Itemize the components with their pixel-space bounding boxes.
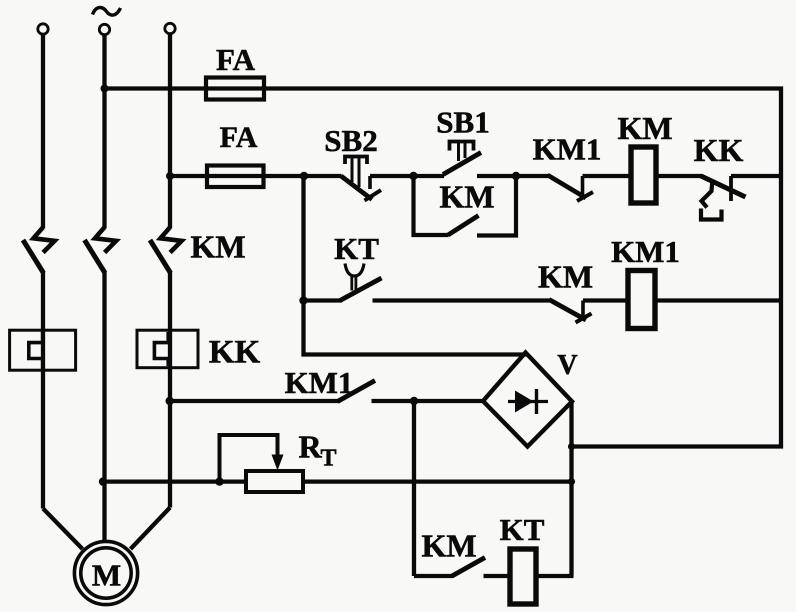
wire bottom row: branch to KM contact (414, 574, 453, 578)
svg-text:R: R (299, 429, 323, 465)
svg-text:SB1: SB1 (436, 105, 489, 140)
wire RT row: resistor to bridge-right bus (303, 479, 572, 483)
AC tilde symbol (93, 8, 121, 16)
thermal relay contact KK (NC) (701, 176, 746, 220)
wire L1 upper (41, 34, 45, 228)
wire row2: KM1 contact to KM coil (583, 174, 632, 178)
svg-text:KM1: KM1 (285, 365, 354, 400)
wire row2: SB1 to KM1 contact (477, 174, 548, 178)
coil KT (time relay) (510, 549, 536, 604)
svg-text:FA: FA (220, 121, 258, 154)
svg-text:KM: KM (421, 528, 476, 564)
svg-text:M: M (92, 558, 121, 593)
wire row2: L3 to SB2 (170, 174, 342, 178)
pushbutton SB2 (NC stop button) (341, 157, 381, 201)
wire row3: KM1 coil to right bus (655, 298, 781, 302)
svg-text:KK: KK (209, 335, 261, 371)
terminal L2 (99, 24, 109, 34)
time relay contact KT (NO, delayed) (340, 264, 382, 301)
wire L1 to motor (43, 509, 83, 550)
wire row3: node to KT contact (302, 298, 343, 302)
motor M (74, 541, 137, 604)
junction row3 tap (299, 296, 307, 304)
wire L3 to motor (131, 508, 171, 550)
svg-text:KT: KT (334, 231, 379, 266)
wire L3 upper (168, 34, 172, 229)
interlock contact KM1 (NC) on row2 (548, 175, 594, 201)
svg-text:KM: KM (538, 259, 593, 295)
wire L3 lower (168, 271, 172, 508)
rectifier bridge V (483, 353, 572, 447)
wire row1 + right-edge bus + bottom-right return (105, 89, 782, 447)
contactor KM main contact 1 (23, 228, 55, 274)
wire RT row: L2 to resistor (103, 479, 247, 483)
junction RT row / loop tap (215, 477, 223, 485)
junction bridge-right / RT row (568, 478, 575, 485)
fuse FA1 (206, 78, 264, 100)
thermal heater element KK phase 1 (10, 330, 76, 370)
junction parallel-branch left (409, 172, 417, 180)
wire row3: KM contact to KM1 coil (583, 298, 628, 302)
contactor KM main contact 2 (85, 228, 117, 274)
svg-text:KT: KT (500, 512, 545, 547)
wire bottom row: KM contact to KT coil (484, 574, 511, 578)
wire branch from row4 down to KM bottom contact (412, 401, 416, 576)
wire L1 lower (41, 271, 45, 509)
terminal L3 (165, 23, 175, 33)
wire: branch down from node 305 and over to bridge top (304, 176, 528, 355)
svg-text:KM: KM (617, 110, 672, 146)
fuse FA2 (207, 166, 264, 188)
wire row4: contact to bridge left vertex (372, 399, 485, 403)
junction row2 / L3 (166, 172, 174, 180)
svg-text:KM: KM (190, 229, 245, 265)
wire row3: KT to KM contact (373, 298, 551, 302)
wire row4: L3 to KM1 contact (170, 399, 340, 403)
contact KM (NO) bottom (452, 558, 485, 577)
wire row2: SB2 to SB1 (370, 174, 444, 178)
pushbutton SB1 (NO start button) (443, 142, 481, 175)
coil KM (contactor) (631, 147, 656, 203)
svg-text:KK: KK (694, 132, 744, 168)
rheostat tap loop with arrow (220, 435, 284, 482)
svg-text:KM1: KM1 (611, 234, 680, 269)
junction RT row / L2 (99, 477, 107, 485)
wire: bridge right vertex down to bottom branch (569, 402, 573, 577)
auxiliary contact KM (self-holding, parallel to SB1) (414, 174, 517, 236)
wire L2 upper (102, 35, 106, 229)
svg-text:FA: FA (216, 42, 256, 77)
contact KM (NC) on row3 (549, 300, 592, 323)
svg-text:KM1: KM1 (533, 132, 602, 167)
junction row1 / L2 (101, 85, 109, 93)
svg-text:KM: KM (439, 179, 494, 215)
wire row2: KK to right bus (731, 174, 783, 178)
svg-text:V: V (557, 350, 577, 381)
wire L2 lower (102, 271, 106, 542)
coil KM1 (628, 271, 655, 329)
contact KM1 (NO braking) (338, 381, 376, 402)
contactor KM main contact 3 (150, 228, 182, 274)
resistor RT (246, 471, 303, 492)
thermal heater element KK phase 3 (137, 330, 198, 368)
junction row4 / branch down (410, 397, 418, 405)
junction node at x=305 row2 (300, 172, 308, 180)
svg-text:SB2: SB2 (324, 123, 377, 158)
junction bridge-right / return bus (568, 443, 575, 450)
junction row4 / L3 (166, 397, 174, 405)
wire bottom row: KT coil to bus (536, 574, 574, 578)
wire row2: KM coil to KK contact (656, 174, 702, 178)
svg-text:T: T (321, 446, 337, 472)
junction parallel-branch right (512, 172, 520, 180)
terminal L1 (38, 24, 48, 34)
